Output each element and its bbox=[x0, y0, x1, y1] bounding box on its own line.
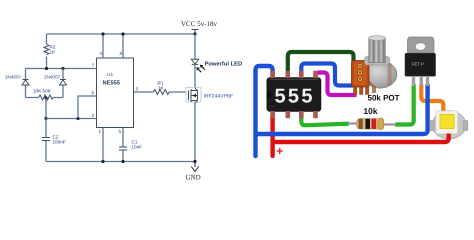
svg-text:6: 6 bbox=[92, 91, 95, 96]
wire main right vertical upper bbox=[194, 34, 196, 59]
wire blue transistor drain run bbox=[256, 84, 428, 134]
svg-text:10nF: 10nF bbox=[132, 145, 143, 150]
wire pin 2 horizontal bbox=[46, 118, 97, 120]
node pin4 vcc bbox=[101, 32, 104, 35]
VCC terminal bbox=[192, 30, 199, 35]
wire magenta pin4 to pot lug3 bbox=[316, 73, 357, 96]
node wiper pin2 junction bbox=[44, 117, 47, 120]
resistor 10k body bbox=[357, 118, 384, 130]
wire green pin3-bottom to resistor bbox=[301, 111, 349, 125]
svg-text:8: 8 bbox=[120, 51, 123, 56]
wire green transistor gate leg bbox=[395, 84, 414, 125]
node gnd rail corner bbox=[193, 160, 196, 163]
wire red rail to LED bbox=[273, 134, 449, 143]
op-amp U1 NE555 box bbox=[97, 58, 134, 128]
svg-text:1K: 1K bbox=[158, 85, 165, 90]
node R2-diode rail bbox=[45, 67, 48, 70]
svg-text:50k POT: 50k POT bbox=[368, 94, 400, 103]
wire blue pin3 to pot lug2 bbox=[301, 64, 353, 86]
svg-text:Powerful LED: Powerful LED bbox=[205, 61, 243, 68]
wire LED to MOSFET bbox=[194, 65, 196, 88]
capacitor C1 bbox=[119, 147, 127, 150]
wire bottom ground rail bbox=[46, 161, 195, 163]
wire pin 6 riser bbox=[78, 96, 97, 119]
resistor 10k leads bbox=[348, 122, 358, 124]
wire pot rail bbox=[26, 97, 64, 99]
svg-text:100nF: 100nF bbox=[53, 140, 66, 145]
node pot wiper bbox=[44, 96, 47, 99]
LED arrows bbox=[196, 65, 205, 73]
svg-text:10K-50K: 10K-50K bbox=[33, 89, 52, 94]
transistor tab bbox=[408, 37, 435, 54]
wire diode-top rail to pin 7 bbox=[26, 68, 97, 70]
resistor R2 bbox=[44, 44, 49, 55]
resistor R1 bbox=[154, 90, 170, 95]
wire diode D1 vertical bbox=[25, 69, 27, 98]
transistor body bbox=[405, 53, 436, 76]
wire diode D2 vertical bbox=[62, 69, 64, 98]
LED power module bbox=[430, 111, 468, 139]
node pin6 riser junction bbox=[76, 117, 79, 120]
svg-text:GND: GND bbox=[186, 174, 201, 182]
svg-text:+: + bbox=[276, 144, 283, 158]
svg-text:FET P: FET P bbox=[412, 62, 424, 67]
transistor legs bbox=[412, 76, 429, 86]
potentiometer shaft bbox=[365, 36, 390, 65]
svg-text:3: 3 bbox=[136, 87, 139, 92]
wire wiper down bbox=[45, 98, 47, 119]
svg-text:7: 7 bbox=[92, 63, 95, 68]
potentiometer 10K-50K zigzag bbox=[39, 95, 54, 100]
svg-text:555: 555 bbox=[275, 86, 315, 108]
node pin5 gnd bbox=[121, 160, 124, 163]
wire pin 8 vertical bbox=[122, 34, 124, 58]
node pin8 vcc bbox=[121, 32, 124, 35]
wire red plus terminal bbox=[270, 111, 274, 156]
transistor Q1 MOSFET bbox=[186, 88, 201, 104]
wire blue pin1 arch and minus terminal bbox=[256, 66, 273, 156]
svg-text:10k: 10k bbox=[364, 106, 378, 116]
svg-text:U1: U1 bbox=[107, 72, 113, 78]
LED D3 bbox=[191, 59, 198, 64]
wire R2 branch vertical bbox=[46, 34, 48, 69]
svg-text:1: 1 bbox=[99, 129, 102, 134]
wire pin 3 output bbox=[134, 91, 186, 93]
svg-text:5: 5 bbox=[119, 129, 122, 134]
svg-text:1N4007: 1N4007 bbox=[5, 75, 22, 80]
wire pin 4 vertical bbox=[102, 34, 104, 58]
capacitor C2 bbox=[42, 138, 50, 141]
svg-text:2: 2 bbox=[92, 113, 95, 118]
wire dark green pin2 to pot lug1 bbox=[288, 52, 354, 78]
ground symbol bbox=[191, 162, 198, 172]
wire MOSFET source down bbox=[194, 103, 196, 162]
svg-text:VCC 5v-18v: VCC 5v-18v bbox=[181, 20, 217, 28]
svg-text:1K: 1K bbox=[50, 50, 57, 55]
IC 555 pins top bbox=[270, 71, 318, 78]
IC 555 pins bottom bbox=[270, 111, 318, 118]
svg-text:IRFZ44VPBF: IRFZ44VPBF bbox=[204, 94, 234, 100]
svg-text:NE555: NE555 bbox=[103, 80, 121, 87]
node pin1 gnd bbox=[101, 160, 104, 163]
node vcc rail corner bbox=[193, 32, 196, 35]
diode D2 1N4007 bbox=[60, 80, 67, 86]
wire top VCC rail bbox=[47, 33, 196, 35]
wire pin 1 vertical bbox=[102, 128, 104, 162]
wire C2 vertical bbox=[45, 119, 47, 162]
diode D1 1N4007 bbox=[22, 80, 29, 86]
IC 555 body bbox=[267, 78, 321, 112]
wire orange transistor to LED bbox=[421, 84, 443, 111]
potentiometer 50k body bbox=[352, 61, 397, 95]
node diode2 top bbox=[61, 67, 64, 70]
wire pin 5 vertical bbox=[122, 128, 124, 162]
svg-text:1N4007: 1N4007 bbox=[44, 75, 61, 80]
schematic background bbox=[0, 0, 474, 192]
svg-text:4: 4 bbox=[100, 51, 103, 56]
